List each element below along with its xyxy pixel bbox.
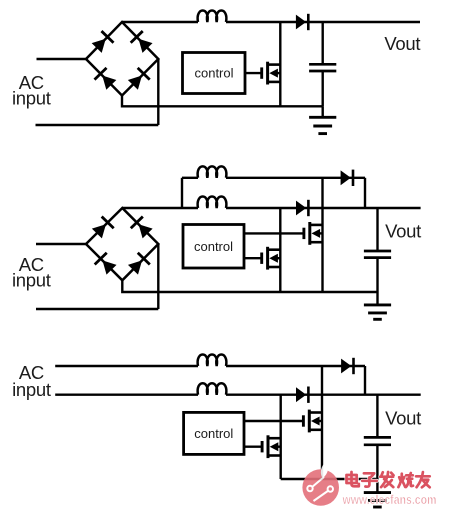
wire: AC line 1 (top) to bridge left node circuit 2 — [36, 243, 86, 245]
wire: ground stub circuit 2 — [376, 292, 378, 305]
wire: phase 1 branch to inductor — [182, 177, 198, 179]
output capacitor C3 circuit 3 — [364, 437, 391, 444]
ground symbol circuit 2 — [364, 305, 391, 319]
wire: phase 2 switch-node vertical circuit 2 — [279, 208, 281, 292]
svg-text:control: control — [194, 239, 233, 254]
MOSFET switch Q1 circuit 1 — [262, 62, 281, 85]
wire: bridge + output to phase 2 inductor — [122, 207, 198, 209]
wire: phase 1 switch-node vertical circuit 2 — [321, 178, 323, 292]
wire: bridge - output bottom rail circuit 2 — [122, 280, 377, 292]
wire: line 2 branch / output rail circuit 3 — [226, 394, 421, 396]
wire: tee riser up to phase 1 branch — [181, 178, 183, 208]
control block circuit 2 — [183, 225, 244, 269]
wire: top rail from inductor to Vout end — [226, 21, 420, 23]
wire: switch-node vertical Q2 circuit 3 — [280, 395, 282, 479]
boost diode D2 (line 2) circuit 3 — [296, 387, 308, 403]
output capacitor C1 circuit 1 — [309, 64, 336, 71]
wire: gate from control to Q2 circuit 3 — [244, 446, 262, 448]
watermark character 烧 — [398, 473, 413, 487]
AC input label (circuit 3) — [12, 362, 51, 400]
svg-text:Vout: Vout — [384, 33, 420, 54]
wire: AC line 1 to inductor circuit 3 — [55, 365, 198, 367]
boost diode D1 (phase 1) circuit 2 — [341, 170, 353, 186]
wire: switch-node vertical (MOSFET drain/source) circuit 1 — [279, 22, 281, 106]
wire: capacitor to bottom rail circuit 1 — [322, 71, 324, 106]
boost diode D1 (line 1) circuit 3 — [341, 358, 353, 374]
wire: output node down to capacitor circuit 2 — [376, 208, 378, 251]
svg-text:Vout: Vout — [385, 221, 421, 242]
ground symbol circuit 1 — [309, 117, 336, 133]
wire: gate from control to Q1 — [245, 72, 262, 74]
control block circuit 3 — [184, 412, 244, 454]
wire: riser from AC line 2 up to bridge right node — [157, 59, 159, 125]
svg-text:control: control — [194, 426, 233, 441]
wire: gate from control to Q2 circuit 2 — [244, 257, 262, 259]
wire: output node down to capacitor circuit 3 — [376, 395, 378, 438]
bridge diode (top-right) circuit 1 — [131, 31, 154, 54]
inductor L1 (boost) circuit 1 — [198, 11, 227, 22]
wire: line 1 from inductor to corner circuit 3 — [226, 365, 365, 367]
wire: bridge + output to inductor — [122, 21, 198, 23]
wire: capacitor to return rail circuit 3 — [376, 445, 378, 479]
wire: output node down to capacitor circuit 1 — [322, 22, 324, 64]
AC input label (circuit 1) — [12, 72, 51, 108]
wire: AC line 2 (bottom) to riser — [36, 124, 159, 126]
wire: phase 1 branch from inductor to corner — [226, 177, 365, 179]
wire: AC line 1 (top) to bridge left node — [37, 58, 87, 60]
MOSFET switch Q2 (phase 2) circuit 2 — [262, 247, 281, 270]
inductor L1 (line 1) circuit 3 — [198, 355, 227, 366]
wire: AC line 2 (bottom) circuit 2 — [36, 308, 158, 310]
wire: gate from control to Q1 circuit 3 — [244, 420, 303, 422]
bridge diode (top-left) circuit 2 — [91, 217, 114, 240]
svg-text:Vout: Vout — [385, 408, 421, 429]
svg-text:input: input — [12, 269, 51, 290]
wire: capacitor to bottom rail circuit 2 — [376, 258, 378, 292]
inductor L2 (phase 2) circuit 2 — [198, 197, 227, 208]
wire: bridge - output bottom rail circuit 1 — [122, 96, 323, 107]
wire: line 1 diode output drop to output rail circuit 3 — [364, 366, 366, 395]
svg-text:input: input — [12, 88, 51, 109]
ground symbol circuit 3 — [364, 493, 391, 507]
watermark character 电 — [347, 472, 359, 486]
wire: ground stub circuit 3 — [376, 479, 378, 493]
MOSFET switch Q1 (phase 1) circuit 2 — [304, 222, 323, 245]
AC input label (circuit 2) — [12, 254, 51, 290]
watermark character 友 — [416, 472, 430, 487]
watermark character 子 — [362, 473, 377, 486]
bridge rectifier frame (diamond) circuit 2 — [86, 208, 158, 280]
watermark character 发 — [380, 472, 393, 487]
svg-text:input: input — [12, 379, 51, 400]
wire: source return rail circuit 3 — [281, 478, 378, 480]
output capacitor C2 circuit 2 — [364, 251, 391, 258]
MOSFET switch Q2 circuit 3 — [262, 435, 281, 458]
bridge diode (top-left) circuit 1 — [91, 31, 114, 54]
wire: gate from control to Q1 circuit 2 — [244, 232, 304, 234]
boost diode D2 (phase 2) circuit 2 — [296, 200, 308, 216]
MOSFET switch Q1 circuit 3 — [303, 410, 322, 433]
bridge rectifier frame (diamond) circuit 1 — [86, 22, 158, 96]
bridge diode (bottom-left) circuit 2 — [95, 253, 118, 276]
inductor L1 (phase 1) circuit 2 — [198, 166, 227, 177]
bridge diode (bottom-right) circuit 1 — [127, 68, 150, 91]
control block circuit 1 — [183, 53, 246, 94]
wire: riser from AC line 2 to bridge right node circuit 2 — [157, 244, 159, 309]
inductor L2 (line 2) circuit 3 — [198, 383, 227, 394]
bridge diode (top-right) circuit 2 — [131, 217, 154, 240]
wire: switch-node vertical Q1 circuit 3 — [321, 366, 323, 479]
wire: ground stub circuit 1 — [322, 106, 324, 117]
watermark logo globe (elecfans) — [302, 462, 339, 506]
bridge diode (bottom-right) circuit 2 — [127, 253, 150, 276]
wire: phase 2 branch / output rail circuit 2 — [226, 207, 421, 209]
svg-text:control: control — [194, 66, 233, 81]
svg-text:www.elecfans.com: www.elecfans.com — [342, 492, 437, 507]
wire: phase 1 diode output drop to output rail — [364, 178, 366, 208]
wire: AC line 2 to inductor circuit 3 — [55, 394, 198, 396]
bridge diode (bottom-left) circuit 1 — [94, 68, 117, 91]
boost diode D1 circuit 1 — [296, 14, 308, 30]
